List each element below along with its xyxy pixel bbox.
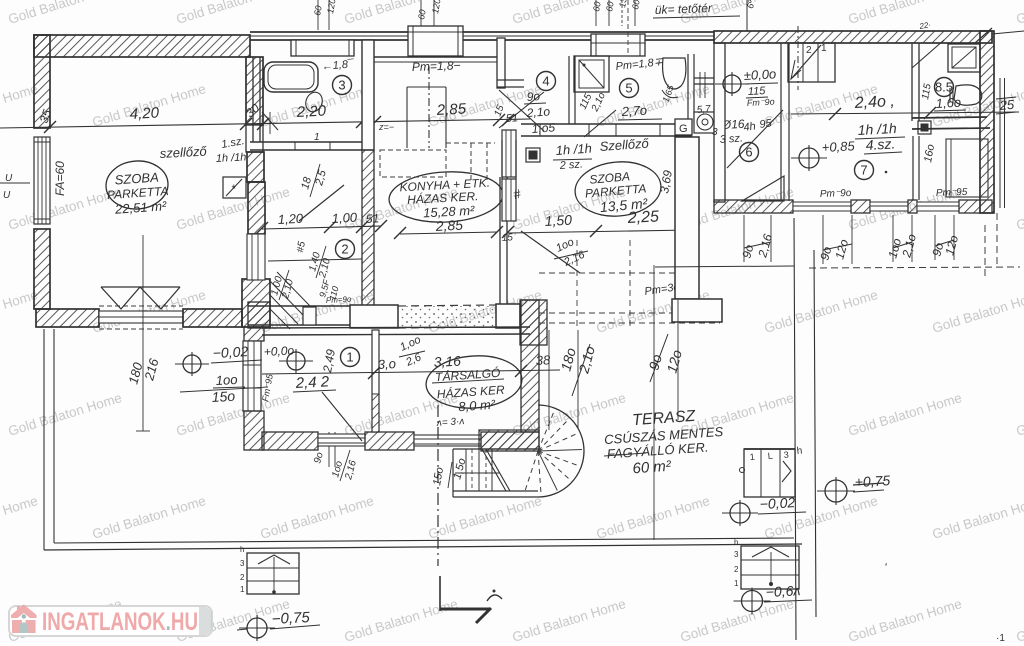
text 1h/1h room7 [855, 120, 905, 139]
spiral stair diagonal newel [482, 449, 510, 491]
circle number 6 [740, 143, 759, 162]
room text SZOBA [114, 169, 159, 187]
text 15 room135 [501, 231, 516, 244]
window in left-room bottom wall [99, 306, 183, 329]
svg-text:h: h [240, 545, 244, 554]
terasz text 4 [632, 458, 672, 478]
text 1.sz left-room [220, 135, 245, 151]
right building right wall hatched [980, 31, 994, 213]
svg-text:115: 115 [748, 85, 767, 98]
svg-text:ük= tetőtér: ük= tetőtér [655, 1, 713, 17]
dim text 2,20 [295, 102, 327, 121]
door swing below room5 [584, 110, 616, 137]
wall left-room left upper (hatched) [34, 35, 50, 128]
dim 2,70 room5 [618, 103, 662, 120]
stair rot labels [431, 457, 468, 488]
svg-text:1oo: 1oo [215, 372, 237, 388]
svg-text:szellőző: szellőző [159, 144, 207, 161]
circle number 4 [537, 72, 556, 91]
svg-text:1,6o: 1,6o [935, 95, 961, 111]
svg-text:2,85: 2,85 [435, 100, 467, 119]
hash symbol room135 [512, 186, 522, 202]
inner lines lower right room [946, 139, 988, 197]
small v mark right [884, 561, 887, 575]
door diagonal room2 [299, 185, 344, 221]
dim text 4,20 [129, 104, 160, 123]
top ticks labels c [591, 0, 642, 26]
svg-text:−0,02: −0,02 [759, 494, 795, 512]
level -0,64 right [734, 582, 813, 614]
pillar box c [591, 34, 645, 56]
svg-text:h: h [796, 446, 803, 457]
stair axis dashdot [797, 26, 799, 90]
x-box symbol left-room [223, 177, 246, 198]
bathtub room3 [264, 62, 318, 92]
svg-text:2: 2 [734, 565, 739, 574]
stair hatch room2 bottom [269, 272, 310, 329]
bottom wall opening1 [793, 202, 851, 211]
kitchen flue box [407, 87, 446, 148]
wall left-room bottom seg1 (hatched) [36, 309, 99, 327]
kitchen axis dash-dot [428, 66, 430, 148]
svg-text:6º: 6º [745, 0, 756, 9]
room6 left wall [714, 43, 725, 202]
dim text 35 rotated [37, 107, 55, 125]
window in left-room left wall [34, 137, 50, 224]
text 150 left [180, 387, 268, 405]
svg-text:60: 60 [416, 9, 428, 21]
center axis vertical [438, 405, 440, 611]
right dim double line [1000, 78, 1005, 208]
wall corner kitchen SE hatched [520, 300, 547, 345]
room5 shower box [574, 56, 609, 92]
circle number 7 [855, 161, 874, 180]
svg-text:8,0 m²: 8,0 m² [458, 397, 496, 415]
dim text 51 room2 [365, 211, 379, 226]
svg-text:3: 3 [734, 550, 739, 559]
svg-text:−0,02: −0,02 [212, 343, 248, 361]
svg-text:4h: 4h [743, 120, 757, 134]
svg-text:51: 51 [505, 112, 518, 125]
top stair box [788, 43, 835, 82]
text 2,42 room1 [293, 373, 336, 392]
kitchen right footing [496, 304, 520, 328]
svg-text:FA=60: FA=60 [53, 161, 67, 196]
room1 bottom wall hatch b [365, 432, 414, 450]
dim pair d below wall [929, 215, 961, 260]
vent square room135 [526, 148, 540, 162]
circle number 5 [620, 79, 639, 98]
text PM=30 [644, 281, 680, 298]
svg-text:1: 1 [734, 579, 739, 588]
kitchen dotted floor band [398, 305, 496, 328]
spiral hatch block [479, 430, 539, 449]
wall room2-kitchen upper [362, 40, 374, 150]
wall left-room top (hatched) [34, 35, 250, 57]
spiral stair steps rect [453, 449, 538, 497]
axis arrow L [440, 590, 502, 624]
text 3sz room6 [719, 132, 743, 146]
svg-text:+0,85: +0,85 [821, 138, 855, 155]
logo text [42, 608, 198, 636]
text FM90 room6 [747, 97, 775, 108]
dot room7 [885, 171, 888, 174]
terrace left boundary double [44, 329, 54, 550]
rotated 100/216 below room2 [330, 450, 359, 482]
svg-text:Pm⁻9o: Pm⁻9o [820, 188, 852, 200]
door swing room8 [912, 40, 944, 68]
level marker room7 [791, 145, 827, 171]
svg-text:60: 60 [604, 1, 616, 13]
svg-text:4: 4 [542, 74, 549, 89]
wall room2 bottom lines [248, 306, 375, 325]
svg-text:1h /1h: 1h /1h [555, 141, 592, 158]
terrace right boundary b [814, 250, 816, 617]
terrace bottom boundary double [44, 538, 802, 550]
text 3 room6 [712, 127, 718, 138]
room1 inner wall [372, 330, 379, 432]
spiral stair fan lines [524, 410, 582, 495]
svg-text:−0,6ʌ: −0,6ʌ [765, 582, 800, 600]
circle number 2 [336, 240, 355, 259]
rotated label 100/210 [269, 270, 296, 301]
dim line 240 room7 [791, 107, 1019, 120]
kitchen ellipse [388, 169, 504, 225]
text 180 rotated [125, 360, 145, 386]
kitchen text HAZAS [407, 188, 479, 207]
text PM=1,8 kitchen [412, 58, 461, 74]
svg-text:Fm⁻9o: Fm⁻9o [747, 97, 775, 108]
svg-text:·1: ·1 [996, 633, 1005, 644]
dim callout 90/120 [645, 265, 685, 540]
text uk=tetoter [653, 0, 932, 31]
svg-text:h: h [734, 538, 738, 547]
dimension chain line y123 [0, 119, 530, 128]
svg-text:−0,75: −0,75 [271, 609, 310, 628]
wall below rooms45 [521, 124, 692, 136]
rotated 115/210 room5 [578, 91, 608, 115]
svg-text:2,4o ,: 2,4o , [853, 93, 895, 112]
text z= kitchen [378, 122, 394, 132]
dim line room135 bottom [502, 224, 696, 238]
text pm000 room6 [743, 66, 778, 84]
corner diag top right [975, 28, 1024, 43]
wall top band middle [250, 32, 714, 40]
svg-text:2 sz.: 2 sz. [558, 158, 583, 172]
circle number 3 [333, 76, 352, 95]
level -0,75 bottom [237, 609, 320, 641]
room1 left wall hatch lower [244, 411, 264, 450]
svg-text:U: U [3, 190, 11, 201]
washing machine symbol [694, 112, 717, 133]
svg-text:6: 6 [745, 145, 752, 160]
svg-text:3 sz.: 3 sz. [719, 132, 743, 146]
left edge FA=60 label [53, 161, 67, 196]
text o16 labels [660, 83, 773, 134]
kitchen door swing X [499, 90, 544, 131]
svg-text:Pm=9o: Pm=9o [326, 295, 353, 305]
text 25 right [996, 97, 1016, 114]
room text PARKETTA [107, 184, 169, 202]
rotated label 95F/110 [317, 278, 340, 301]
dim line room2 y228 [256, 220, 387, 234]
svg-text:Pm=1,8−: Pm=1,8− [412, 58, 461, 74]
toilet room5 [662, 58, 686, 98]
top dashed axis [627, 0, 629, 56]
wall between 7 and 8 lower [913, 136, 919, 200]
dashed line below rooms67 [809, 213, 1020, 277]
kitchen right wall lower [500, 177, 507, 305]
svg-text:1,20: 1,20 [277, 211, 304, 227]
tiny mark bottom right [996, 633, 1005, 644]
text 160 rotated room8 [922, 143, 937, 163]
dim pair c below wall [885, 215, 919, 262]
svg-text:1h /1h: 1h /1h [216, 151, 247, 165]
dim text 1,20 room2 [277, 211, 304, 227]
svg-text:25: 25 [998, 97, 1015, 113]
kitchen right wall window [502, 130, 516, 177]
room1 bottom wall hatch c [481, 432, 539, 451]
vent room8 [918, 121, 931, 134]
dim text 30 b [359, 100, 378, 120]
room1 bottom wall hatch a [262, 432, 318, 450]
bottom wall opening2 [870, 202, 908, 211]
tarsalgo text 2 [436, 382, 505, 402]
svg-text:1,o5: 1,o5 [531, 120, 556, 136]
circle number 8 [935, 78, 954, 97]
svg-text:3: 3 [338, 78, 345, 93]
text PM=95 room1 [435, 416, 464, 429]
svg-text:1: 1 [821, 43, 827, 54]
svg-text:60: 60 [591, 1, 603, 13]
svg-text:3: 3 [712, 127, 718, 138]
dim pair a below wall [739, 215, 775, 262]
bottom wall rooms67 seg4 hatched [959, 200, 992, 213]
svg-text:3: 3 [783, 450, 789, 460]
room135 left wall window [502, 140, 516, 221]
svg-text:9o: 9o [526, 89, 541, 104]
text PM=1,8 room5 [615, 56, 664, 73]
room1 inner door swing [322, 392, 362, 441]
wall corner left-room / room2 (hatched) [242, 279, 270, 327]
text 1h/1h left-room [216, 151, 247, 165]
wall left-room right mid (hatched) [248, 182, 265, 234]
svg-text:1: 1 [749, 452, 755, 462]
text PM=90 b [936, 187, 968, 199]
level -0,02 left [175, 343, 262, 376]
dim line room1 [262, 365, 560, 379]
bottom wall rooms67 seg1 hatched [714, 200, 793, 213]
text 1h1h szellozo room135 [553, 136, 650, 160]
svg-text:3: 3 [240, 559, 245, 568]
room135 text 13,5 [599, 195, 649, 215]
level -0,02 right [722, 494, 806, 526]
rotated 18/25 labels [299, 164, 329, 197]
dim text 15 [492, 103, 506, 118]
svg-text:15ʾ: 15ʾ [501, 231, 516, 244]
text 1,60 room8 [934, 95, 966, 111]
kitchen right wall upper [497, 38, 524, 88]
svg-text:INGATLANOK.HU: INGATLANOK.HU [42, 608, 198, 636]
text 2,49 rotated room1 [320, 348, 338, 375]
rotated label hash5 [295, 240, 308, 253]
text 1,8 room3 [321, 58, 355, 73]
svg-text:3,o: 3,o [377, 356, 396, 372]
solid line left of terrace right [655, 266, 794, 267]
kitchen dashed counter a [380, 150, 446, 177]
dim text 1,50 [544, 212, 572, 229]
stair box right upper [740, 446, 803, 497]
svg-text:5,7: 5,7 [696, 104, 711, 116]
window triangles (pointing down) [101, 287, 180, 309]
labels room1 dims [377, 334, 551, 372]
logo house icon [11, 605, 37, 634]
room6 right wall [781, 43, 789, 201]
door marks room3 [262, 112, 320, 143]
svg-text:5: 5 [625, 81, 632, 96]
terrace right boundary a [794, 218, 796, 640]
wall between 7 and 8 upper [912, 43, 919, 121]
door swing room135 [521, 231, 580, 273]
niche lines right of room5 [694, 72, 714, 98]
pillar white room2 bottom [303, 307, 316, 325]
svg-text:ʌ= 3·ʌ: ʌ= 3·ʌ [435, 416, 464, 429]
terasz text 1 [632, 408, 697, 429]
svg-text:7: 7 [860, 163, 867, 178]
door diagonal room6 [727, 110, 783, 168]
svg-text:+0,0o: +0,0o [263, 343, 294, 359]
svg-text:2,4 2: 2,4 2 [294, 373, 330, 392]
svg-text:*: * [231, 182, 236, 196]
wall footing room2-kitchen [350, 305, 398, 328]
text 100 left [213, 372, 245, 388]
top ticks labels a [312, 0, 337, 30]
text 216 rotated [141, 356, 162, 383]
dim text 1,00 room2 [331, 210, 358, 226]
rotated label 1,40/2,10 [307, 246, 333, 280]
svg-text:60: 60 [630, 0, 642, 10]
terasz text 2 [604, 424, 724, 447]
door triangle room6 [742, 176, 784, 201]
pillar box b [408, 26, 463, 56]
room135 text SZOBA [589, 169, 631, 186]
pillar box a [291, 40, 354, 56]
svg-text:1,50: 1,50 [544, 212, 572, 229]
text 115 room8 rotated [920, 82, 934, 100]
room8 bottom wall [912, 117, 990, 129]
kitchen dim 2,85 below [394, 217, 503, 239]
wall B left of room6 [675, 137, 699, 299]
bottom wall rooms67 seg3 hatched [908, 200, 917, 213]
room135 ellipse [573, 158, 663, 219]
svg-text:G: G [679, 123, 688, 135]
wall left-room bottom seg2 (hatched) [183, 309, 242, 327]
bottom wall opening3 [917, 202, 959, 211]
labels near room4 [505, 89, 555, 136]
stair box bottom center [240, 545, 299, 594]
room135 text PARKETTA [584, 181, 647, 200]
room text 22,51 m2 [114, 198, 168, 217]
left room interior texts szellozo [159, 144, 207, 161]
dim text 2,85 [435, 100, 467, 119]
level marker room6 [715, 72, 749, 96]
top ticks labels b [416, 0, 442, 26]
room ellipse SZOBA 22,51 [104, 159, 169, 211]
room8 shower [948, 44, 980, 72]
dim text 30 a [243, 101, 262, 121]
wall room2-kitchen hatched lower [362, 150, 374, 306]
svg-text:1: 1 [346, 350, 353, 365]
svg-text:L: L [767, 451, 773, 461]
svg-text:1,00: 1,00 [331, 210, 358, 226]
window in left-room right wall [247, 234, 265, 280]
tarsalgo ellipse [424, 353, 523, 412]
svg-text:2,85: 2,85 [434, 217, 463, 234]
dim text 2,25 [626, 208, 659, 227]
wall bathroom3 left (double) [253, 57, 260, 142]
room1 top edge double line [262, 327, 530, 335]
room5 right wall [688, 54, 694, 124]
dashed lines below room135 [539, 240, 720, 330]
svg-text:2,25: 2,25 [626, 208, 659, 227]
room1 left wall hatch upper [244, 327, 264, 341]
logo box [9, 606, 212, 636]
right building top wall hatched [714, 31, 992, 43]
G meter box [675, 119, 692, 135]
text FM rotated room1 left [260, 372, 275, 402]
svg-text:U: U [5, 173, 13, 184]
wall left-room right upper (hatched) [246, 57, 264, 182]
svg-text:2,1o: 2,1o [525, 104, 551, 120]
text 115 room6 [746, 85, 768, 98]
room1 left wall window [243, 341, 261, 411]
toilet room8 [950, 85, 982, 105]
stair box right lower [734, 538, 799, 589]
wall B footing [672, 299, 722, 322]
dim callout 180/210 [549, 330, 598, 430]
level marker room1 [263, 343, 313, 373]
svg-text:+0,75: +0,75 [854, 472, 890, 490]
spiral stair outer arc [453, 405, 584, 497]
text +0,85 4.sz [821, 135, 902, 155]
dim ticks on chain [44, 114, 514, 133]
tarsalgo text 3 [458, 397, 496, 415]
svg-text:z=−: z=− [378, 122, 394, 132]
kitchen text KONYHA [399, 176, 490, 195]
text 2sz room135 [558, 158, 583, 172]
svg-text:2: 2 [341, 242, 348, 257]
text PM=90 a [820, 188, 852, 200]
kitchen text 15,28 [423, 203, 476, 221]
dim 2,40 text room7 [853, 93, 895, 112]
svg-text:60 m²: 60 m² [632, 458, 672, 478]
svg-text:2,7o: 2,7o [620, 103, 647, 119]
room1 right wall hatched [521, 300, 539, 432]
svg-text:2: 2 [806, 45, 812, 56]
sink room3 [303, 90, 325, 114]
text 3,69 rotated [657, 169, 675, 195]
kitchen dashed counter b [446, 143, 495, 180]
level +0,75 right [817, 472, 891, 505]
tarsalgo text 1 [432, 365, 504, 385]
svg-text:4,20: 4,20 [129, 104, 160, 123]
svg-text:ʽ: ʽ [884, 561, 887, 575]
rotated label 57 [307, 307, 320, 320]
svg-text:1: 1 [240, 585, 245, 594]
room1 bottom window a [318, 434, 365, 446]
wall room2 bottom hatch corner [248, 302, 270, 328]
svg-text:±0,0o: ±0,0o [743, 66, 776, 83]
